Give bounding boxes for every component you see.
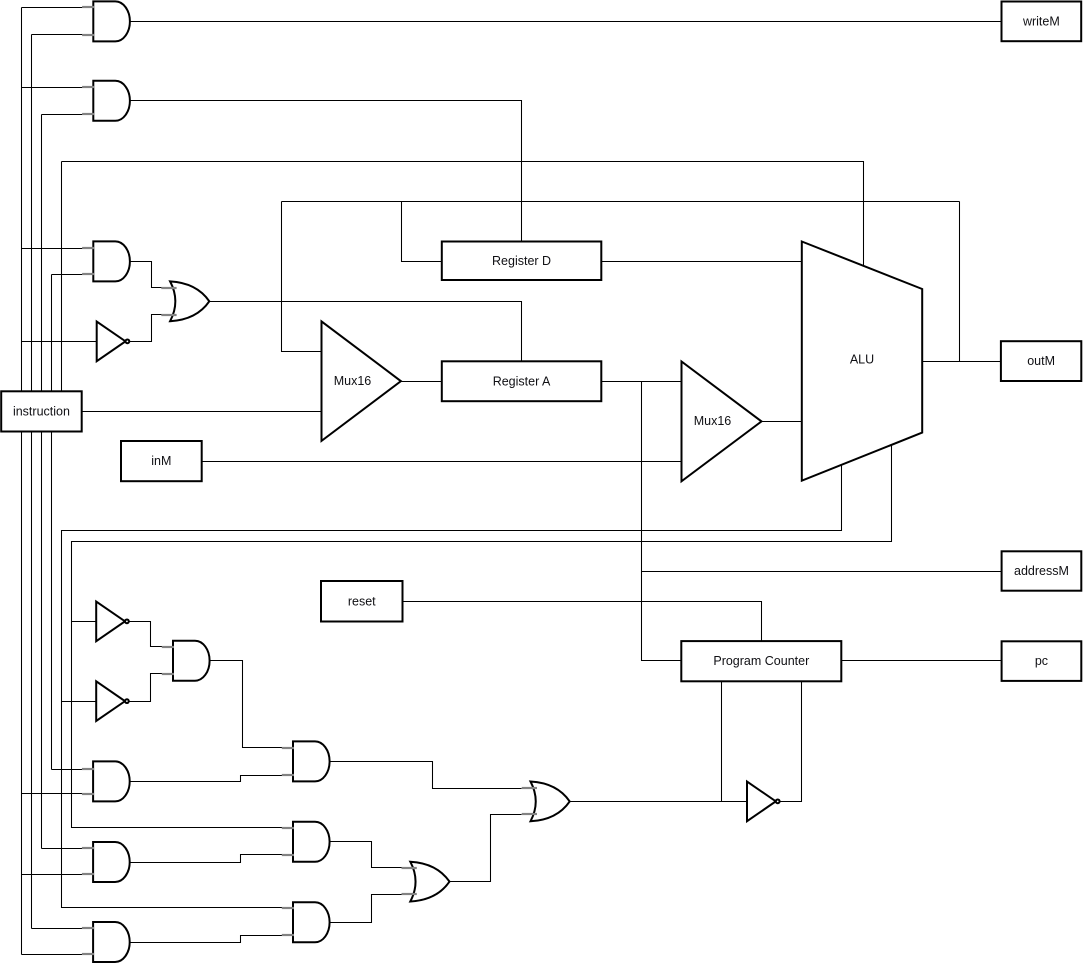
node writeM output port [1002,2,1082,42]
wire bus line d2 (x=41) [41,115,43,849]
wire NOT U10 out to AND U13 input a [129,622,163,647]
register PC (Program Counter) [681,641,841,681]
wire AND U16 out to AND U15 input b [130,936,283,943]
wire bus line d1 (x=31) [31,35,33,929]
wire ng branch to NOT U10 input [72,621,97,623]
and gate U3 (load A c-inst) [82,241,130,281]
wire NOT U21 out to PC inc [781,682,802,802]
wire AND U17 out to OR U20 input a [330,762,522,789]
wire bus line c-bits (x=61) [61,162,63,392]
wire AND U14 out to AND U18 input b [130,855,283,863]
svg-text:Program Counter: Program Counter [713,654,809,668]
wire AND U2 out to Register D load [130,101,522,242]
wire branch to AND U16 input b [22,954,83,956]
wire ALU control from instruction [62,162,864,267]
and gate U12 (jgt j3) [82,761,130,801]
wire branch to NOT U4 input [22,341,98,343]
wire branch to AND U14 input a [42,848,83,850]
node reset input port [321,581,403,622]
wire Register A out to Mux U9 input a [602,381,682,383]
wire instruction out to Mux U7 input b [82,411,322,413]
wire Register A drop to PC input [642,382,682,661]
wire AND U12 out to AND U17 input b [130,776,283,782]
register D (Register D) [442,242,602,281]
and gate U13 (positive) [162,641,210,681]
and gate U17 (jump gt) [282,741,330,781]
wire OR U19 out to OR U20 input b [450,815,522,882]
wire bus line d3 (x=51) [51,275,53,770]
wire AND U15 out to OR U19 input b [330,895,402,923]
wire AND U1 out to writeM [130,21,1002,23]
wire zr branch to NOT U11 input [62,701,97,703]
wire branch to AND U3 input a [22,248,83,250]
wire branch to AND U14 input b [22,874,83,876]
wire PC out to pc [842,660,1002,662]
wire ALU feedback horizontal [282,201,960,203]
wire AND U18 out to OR U19 input a [330,842,402,868]
or gate U20 (jump) [522,782,570,822]
wire Mux U7 out to Register A [401,381,442,383]
wire ALU feedback riser at x=960 [959,202,961,362]
or gate U5 (load A) [161,281,209,321]
mux U7 (Mux16 A-input select) [322,321,401,441]
node outM output port [1001,341,1081,381]
svg-text:Register D: Register D [492,254,551,268]
svg-text:inM: inM [151,454,171,468]
not gate U4 (a-inst) [97,322,130,362]
wire branch to AND U3 input b [52,274,83,276]
and gate U18 (jump eq) [282,822,330,862]
wire NOT U11 out to AND U13 input b [129,674,163,702]
wire NOT U4 out to OR U5 input b [129,315,163,342]
mux U9 (Mux16 ALU y select) [682,362,762,482]
svg-text:pc: pc [1035,654,1048,668]
wire drop to Register D input [402,202,442,262]
wire bus line instruction[15] (x=21) [21,8,23,955]
wire branch to AND U2 input b [42,114,83,116]
svg-text:Register A: Register A [493,374,551,388]
node instruction input port [1,391,82,431]
wire AND U13 out to AND U17 input a [210,661,283,748]
wire branch to AND U2 input a [22,87,83,89]
wire PC drop to jump line [721,682,723,802]
svg-text:reset: reset [348,594,376,608]
wire Register D out to ALU x input [602,261,802,263]
wire branch to AND U1 input b [32,34,83,36]
and gate U1 (writeM) [82,1,130,41]
svg-text:outM: outM [1027,354,1055,368]
wire ALU ng output loop [72,445,892,828]
wire branch to AND U12 input b [22,793,83,795]
wire reset to PC [403,602,762,642]
and gate U2 (load D) [82,81,130,121]
svg-text:addressM: addressM [1014,564,1069,578]
svg-text:Mux16: Mux16 [334,374,372,388]
wire branch to addressM [642,571,1002,573]
svg-text:instruction: instruction [13,404,70,418]
and gate U16 (jlt j1) [82,922,130,962]
and gate U15 (jump lt) [282,902,330,942]
wire ALU feedback drop to Mux U7 input a [282,202,322,352]
not gate U21 (no jump) [747,782,780,822]
wire ALU out to outM [923,361,1001,363]
svg-text:ALU: ALU [850,353,874,367]
alu U8 (ALU) [802,242,922,481]
wire OR U20 out to NOT U21 input [570,801,748,803]
node addressM output port [1002,551,1082,590]
or gate U19 (eq or lt) [402,862,450,902]
wire ALU zr output loop [62,465,842,908]
not gate U10 (not ng) [96,602,129,642]
wire inM out to Mux U9 input b [202,461,682,463]
register A (Register A) [442,361,602,401]
wire OR U5 out to Register A load [210,302,522,362]
node inM input port [121,441,202,481]
wire branch to AND U1 input a [22,7,83,9]
and gate U14 (jeq j2) [82,842,130,882]
wire branch to AND U16 input a [32,928,83,930]
node pc output port [1002,641,1082,681]
not gate U11 (not zr) [96,681,129,721]
svg-text:Mux16: Mux16 [694,414,732,428]
wire Mux U9 out to ALU y input [762,421,802,423]
wire branch to AND U12 input a [52,769,83,771]
svg-text:writeM: writeM [1022,14,1060,28]
wire AND U3 out to OR U5 input a [130,262,163,288]
